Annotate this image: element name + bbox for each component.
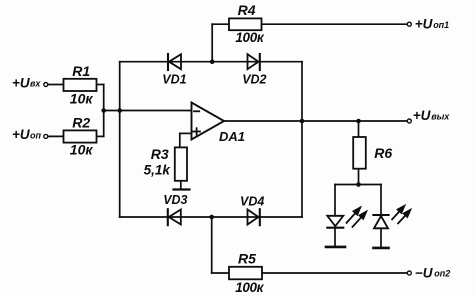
resistor R2 — [64, 130, 97, 142]
svg-text:100к: 100к — [235, 30, 264, 45]
svg-text:+U: +U — [413, 108, 432, 123]
wire: top diode row — [120, 61, 302, 63]
svg-text:VD2: VD2 — [242, 72, 266, 86]
wire: +Uop terminal to R2 — [48, 135, 64, 137]
wire: R2 right to vertical bus — [97, 135, 104, 137]
wire: summing node to op-amp inverting input — [104, 110, 192, 112]
wire: LED rail horizontal — [335, 184, 381, 186]
resistor R4 — [229, 18, 262, 30]
svg-text:R3: R3 — [151, 146, 169, 162]
terminal +Uvyx — [407, 119, 411, 123]
svg-text:R5: R5 — [238, 250, 256, 266]
svg-text:+U: +U — [415, 17, 434, 32]
svg-text:VD4: VD4 — [240, 195, 264, 209]
wire: LED1 anode vertical — [334, 185, 336, 216]
resistor R6 — [353, 137, 366, 169]
op-amp plus sign — [193, 128, 200, 135]
svg-text:+U: +U — [12, 75, 31, 90]
wire: R6 bottom stub — [358, 169, 360, 185]
terminal +Uop — [44, 134, 48, 138]
wire: op-amp + input horizontal — [180, 132, 192, 134]
svg-text:−U: −U — [415, 265, 434, 280]
wire: LED2 top vertical — [380, 185, 382, 215]
terminal +Uvx — [44, 83, 48, 87]
wire: op-amp output to +Uvyx terminal — [224, 120, 407, 122]
diode VD1 — [168, 54, 181, 70]
svg-text:DA1: DA1 — [219, 129, 245, 144]
svg-text:R6: R6 — [374, 145, 392, 161]
wire: R5 to -Uop2 terminal — [262, 272, 407, 274]
resistor R1 — [64, 79, 97, 91]
svg-text:оп1: оп1 — [433, 20, 449, 30]
wire: R6 top stub — [358, 121, 360, 137]
node: R6 bottom / LED rail — [356, 182, 361, 187]
wire: LED2 bottom vertical — [380, 228, 382, 247]
svg-text:VD1: VD1 — [162, 72, 186, 86]
svg-text:+U: +U — [12, 127, 31, 142]
svg-text:VD3: VD3 — [163, 193, 187, 207]
label +Uop — [12, 127, 41, 142]
wire: bottom diode row — [120, 216, 302, 218]
wire: left feedback vertical — [119, 62, 121, 217]
diode VD3 — [168, 209, 181, 225]
wire: right feedback vertical — [301, 62, 303, 217]
svg-text:10к: 10к — [70, 142, 94, 158]
diode VD2 — [248, 54, 260, 70]
LED HL1 emission arrows — [347, 208, 367, 227]
node: output / right feedback — [300, 119, 305, 124]
wire: R5 stub horizontal — [212, 272, 229, 274]
op-amp DA1 — [192, 103, 225, 140]
LED HL1 — [326, 216, 345, 247]
LED HL2 — [373, 215, 388, 248]
label +Uop1 — [415, 17, 450, 32]
svg-text:вых: вых — [431, 111, 450, 121]
wire: R1 right to vertical bus — [97, 84, 104, 86]
svg-text:100к: 100к — [235, 280, 264, 295]
node: summing junction R1/R2 — [101, 108, 106, 113]
wire: R3 bottom to ground — [180, 181, 182, 189]
wire: +Uvx terminal to R1 — [48, 84, 64, 86]
wire: + input down to R3 — [179, 133, 181, 147]
label -Uop2 — [415, 265, 450, 280]
svg-text:оп2: оп2 — [434, 269, 450, 279]
svg-text:вх: вх — [30, 79, 41, 89]
ground — [174, 188, 190, 190]
resistor R3 — [175, 147, 187, 180]
LED HL2 emission arrows — [392, 206, 410, 224]
svg-text:R2: R2 — [72, 115, 90, 131]
svg-text:R4: R4 — [238, 2, 256, 18]
terminal -Uop2 — [407, 271, 411, 275]
op-amp minus sign — [194, 110, 199, 112]
svg-text:R1: R1 — [72, 63, 90, 79]
wire: vertical R1-R2 junction bus — [103, 85, 105, 137]
wire: R4 to +Uop1 terminal — [262, 23, 407, 25]
label +Uvyx — [413, 108, 451, 123]
wire: R5 stub vertical — [211, 217, 213, 273]
wire: LED1 cathode vertical — [334, 228, 336, 246]
node: inverting input / feedback tap — [117, 108, 122, 113]
node: output / R6 tap — [356, 119, 361, 124]
resistor R5 — [229, 267, 262, 280]
wire: R4 stub vertical — [211, 24, 213, 62]
diode VD4 — [248, 209, 260, 225]
svg-text:оп: оп — [30, 131, 41, 141]
terminal +Uop1 — [407, 22, 411, 26]
wire: R4 stub horizontal — [212, 23, 229, 25]
node: top row / R4 tap — [210, 59, 215, 64]
svg-text:10к: 10к — [70, 91, 94, 107]
node: bottom row / R5 tap — [209, 215, 214, 220]
svg-text:5,1k: 5,1k — [144, 163, 172, 178]
label +Uvx — [12, 75, 41, 90]
